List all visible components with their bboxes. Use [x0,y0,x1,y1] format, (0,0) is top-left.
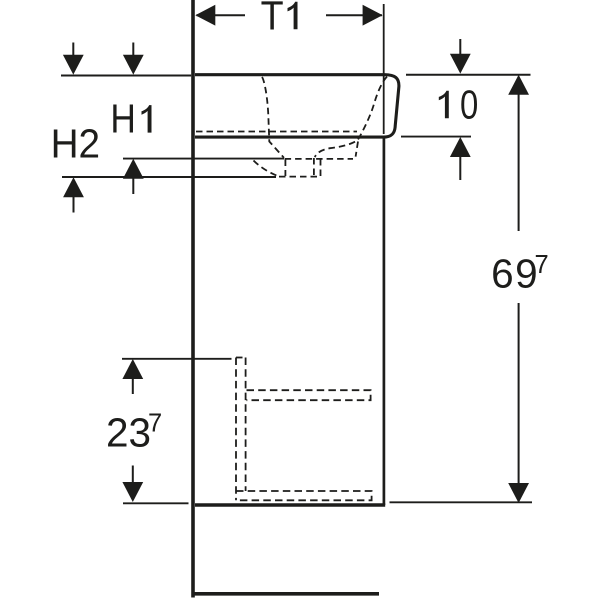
svg-text:0: 0 [460,82,478,128]
svg-text:T: T [261,0,284,38]
svg-text:23: 23 [106,410,151,456]
svg-text:H2: H2 [51,121,101,167]
svg-text:H: H [110,96,135,142]
svg-text:7: 7 [148,410,162,438]
svg-text:69: 69 [491,251,537,297]
svg-text:7: 7 [535,251,549,279]
